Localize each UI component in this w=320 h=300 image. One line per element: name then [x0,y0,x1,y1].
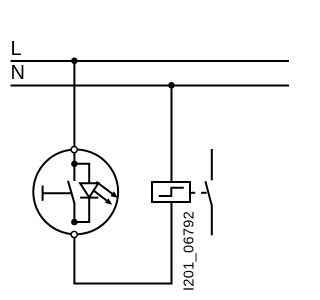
pushbutton S1 upper fixed lead [73,164,75,181]
net N line [11,85,290,87]
LED emission arrow 2 shaft [94,190,107,200]
pushbutton S1 lower lead [73,203,75,222]
wire: bottom terminal down, right, up to relay K1 [74,202,171,284]
relay K1 box [152,182,190,202]
net L line [11,60,290,62]
LED emission arrow 1 shaft [96,182,112,194]
relay K1 step symbol [159,188,184,196]
switch S2 lower lead [211,204,213,235]
wire: node A to LED anode [74,164,89,183]
lamp top terminal (open circle) [71,147,77,153]
wire: LED cathode to node B [74,198,89,222]
LED emission arrow 2 head [105,198,112,205]
node B junction dot [71,219,78,226]
LED triangle (anode) [80,183,98,197]
svg-text:L: L [11,38,22,60]
junction dot on N line [168,82,175,89]
lamp bottom terminal (open circle) [71,231,77,237]
svg-text:N: N [11,62,25,84]
node A junction dot [71,161,78,168]
pushbutton S1 actuator end cap [42,186,44,201]
LED emission arrow 1 head [110,191,117,198]
wire: L line down to lamp top terminal [73,61,75,146]
LED cathode bar [80,197,98,199]
lamp unit enclosure circle [33,150,118,235]
pushbutton S1 blade [68,181,75,204]
pushbutton S1 actuator rod [43,192,72,194]
wire: top terminal to node A [73,153,75,164]
svg-text:I201_06792: I201_06792 [181,211,197,291]
switch S2 blade [205,181,211,204]
mechanical link dash 2 [201,192,207,194]
junction dot on L line [71,58,78,65]
wire: N line down to relay K1 [171,86,173,182]
mechanical link (dashed) relay to switch [191,192,195,194]
switch S2 upper lead [211,149,213,180]
